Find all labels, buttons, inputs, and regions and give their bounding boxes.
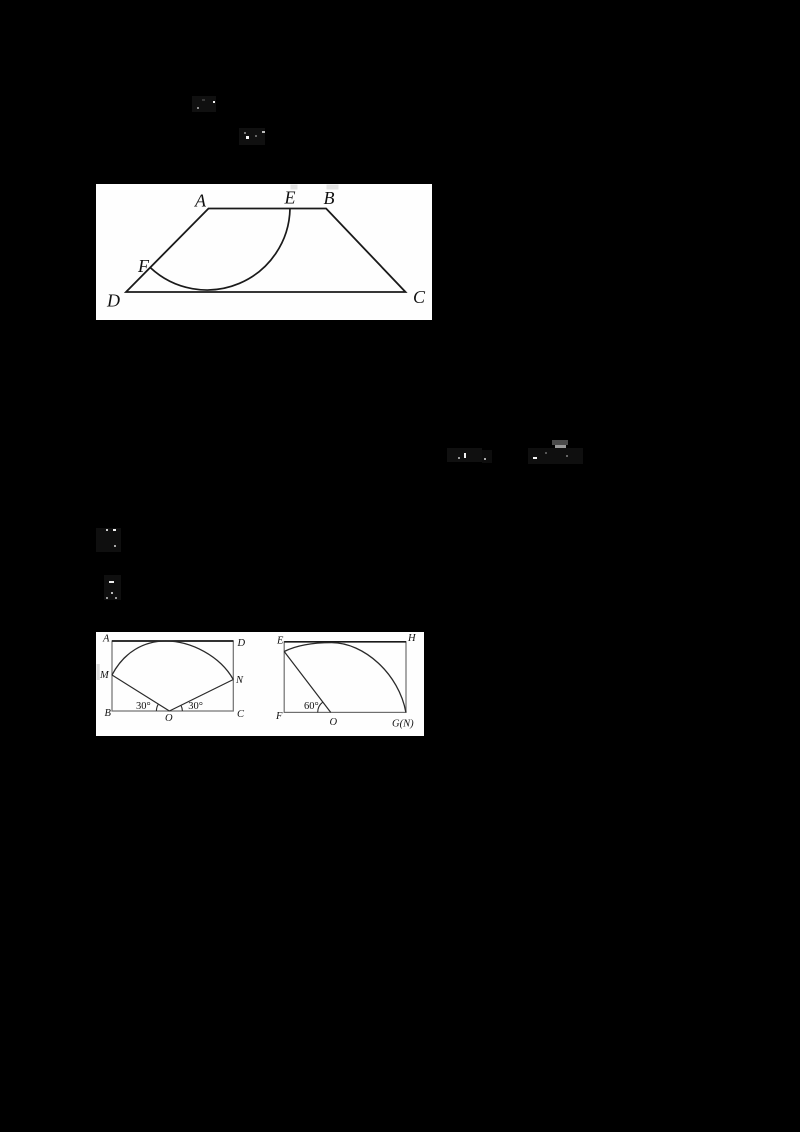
arc M' to G — [284, 643, 406, 713]
faint text blob 2 — [239, 128, 265, 145]
svg-text:M: M — [99, 670, 110, 681]
svg-text:30°: 30° — [188, 701, 203, 712]
line O2 to M' — [284, 652, 331, 713]
left rectangle ABCD — [112, 641, 233, 711]
svg-text:O: O — [165, 713, 173, 724]
svg-text:A: A — [194, 190, 207, 210]
svg-text:N: N — [235, 675, 244, 686]
angle arc 60 — [318, 702, 323, 712]
svg-text:A: A — [102, 634, 110, 645]
svg-text:B: B — [323, 188, 334, 208]
faint text blob 1 — [192, 96, 216, 112]
angle arc left 30 — [156, 704, 158, 711]
svg-text:H: H — [407, 633, 417, 644]
svg-text:E: E — [276, 635, 284, 646]
svg-text:C: C — [413, 287, 426, 307]
arc M to N — [112, 641, 233, 680]
figure 2 white panel — [96, 632, 424, 736]
right rect top edge darker — [284, 641, 406, 643]
svg-text:60°: 60° — [304, 701, 319, 712]
svg-text:F: F — [275, 711, 283, 722]
gray strip left of M — [97, 664, 100, 680]
svg-text:O: O — [330, 717, 338, 728]
faint text blob 6 — [104, 575, 121, 600]
right rectangle EFGH — [284, 642, 406, 713]
svg-text:F: F — [137, 256, 150, 276]
svg-text:B: B — [105, 708, 112, 719]
svg-text:D: D — [237, 638, 246, 649]
gray smudge above B — [326, 184, 338, 189]
faint text blob 5 — [96, 528, 121, 552]
svg-text:D: D — [106, 290, 120, 310]
angle arc right 30 — [181, 705, 183, 711]
svg-text:C: C — [237, 709, 245, 720]
line O to N — [169, 680, 233, 712]
svg-text:E: E — [283, 187, 295, 207]
svg-text:30°: 30° — [136, 701, 151, 712]
gray smudge above E — [290, 184, 297, 189]
faint text blob 3 — [447, 448, 482, 462]
arc F to E centered at A radius 83 — [150, 208, 290, 289]
line O to M — [112, 675, 169, 711]
svg-text:G(N): G(N) — [392, 719, 414, 730]
figure 1 white panel — [96, 184, 433, 321]
faint text blob 4 — [552, 440, 568, 445]
left rect top edge darker — [112, 640, 233, 642]
trapezoid ABCD — [126, 208, 406, 292]
